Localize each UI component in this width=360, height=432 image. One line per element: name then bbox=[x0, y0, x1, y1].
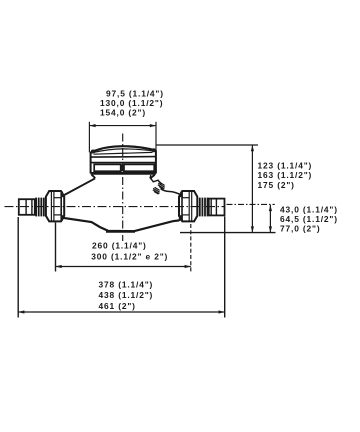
top width dimension labels 97,5 / 130,0 / 154,0 bbox=[100, 89, 164, 118]
svg-text:378 (1.1/4"): 378 (1.1/4") bbox=[99, 280, 154, 290]
body belly flat bottom bbox=[106, 230, 135, 233]
lower dimension line 260/300 bbox=[56, 266, 191, 268]
register counter window right bbox=[124, 164, 154, 171]
register lid chord line bbox=[94, 152, 153, 154]
right half-height labels 43,0/64,5/77,0 bbox=[280, 205, 338, 234]
lower dimension labels 260/300 bbox=[91, 241, 168, 262]
svg-text:77,0 (2"): 77,0 (2") bbox=[280, 224, 320, 234]
left pipe inner lines bbox=[25, 199, 27, 215]
tamper seal wire zigzag bbox=[150, 175, 161, 184]
right thread section bbox=[200, 198, 208, 217]
svg-text:64,5 (1.1/2"): 64,5 (1.1/2") bbox=[280, 214, 338, 224]
register band line bbox=[91, 162, 156, 164]
tamper seal lead blob lower bbox=[153, 187, 160, 194]
svg-text:175 (2"): 175 (2") bbox=[258, 180, 295, 190]
body right neck curve bbox=[151, 175, 155, 179]
vertical centerline of meter bbox=[122, 134, 124, 242]
register head dome lid outer arc bbox=[91, 146, 156, 152]
lower dimension extension line left bbox=[55, 223, 57, 272]
svg-text:130,0 (1.1/2"): 130,0 (1.1/2") bbox=[100, 98, 163, 108]
right half-height dimension line (43/64,5/77) bbox=[269, 205, 271, 233]
svg-text:260 (1.1/4"): 260 (1.1/4") bbox=[92, 241, 147, 251]
right height dimension line (123/163/175) bbox=[251, 145, 253, 233]
top dimension extension line left bbox=[88, 122, 90, 153]
right nut facet lines bbox=[188, 191, 190, 221]
overall length extension line right bbox=[224, 217, 226, 318]
register housing left side bbox=[90, 152, 92, 174]
register head dome lid inner seam arc bbox=[92, 149, 156, 153]
overall length labels 378/438/461 bbox=[99, 280, 154, 311]
tamper seal lead blob upper bbox=[158, 182, 165, 189]
register counter window left bbox=[94, 164, 121, 171]
overall length extension line left bbox=[17, 217, 19, 318]
svg-text:163 (1.1/2"): 163 (1.1/2") bbox=[258, 170, 313, 180]
right union nut bbox=[179, 191, 197, 221]
svg-text:43,0 (1.1/4"): 43,0 (1.1/4") bbox=[280, 205, 338, 215]
svg-text:123 (1.1/4"): 123 (1.1/4") bbox=[258, 160, 313, 170]
left union nut bbox=[46, 191, 64, 221]
register bottom edge bbox=[91, 172, 156, 175]
body left shoulder slope bbox=[64, 178, 95, 195]
overall length dimension line 378/438/461 bbox=[18, 311, 225, 313]
top dimension line with arrows bbox=[89, 125, 156, 127]
body left neck curve bbox=[92, 175, 96, 179]
left nut facet lines bbox=[50, 191, 52, 221]
left thread section bbox=[36, 198, 44, 217]
svg-text:438 (1.1/2"): 438 (1.1/2") bbox=[99, 290, 154, 300]
svg-text:154,0 (2"): 154,0 (2") bbox=[100, 108, 146, 118]
top dimension extension line right bbox=[155, 122, 157, 152]
centerline extension to half-height dimension bbox=[227, 203, 275, 205]
left pipe end bbox=[19, 199, 35, 215]
register lid hinge pins bbox=[91, 148, 156, 153]
svg-text:461 (2"): 461 (2") bbox=[99, 301, 136, 311]
register lid rim line bbox=[91, 156, 156, 159]
lower dimension extension line right dashed bbox=[190, 224, 192, 272]
right height labels 123/163/175 bbox=[258, 160, 313, 190]
register housing right side bbox=[155, 150, 157, 173]
right extension line from register top bbox=[156, 144, 259, 146]
right extension line at meter bottom bbox=[180, 232, 276, 234]
svg-text:97,5 (1.1/4"): 97,5 (1.1/4") bbox=[106, 89, 164, 99]
svg-text:300 (1.1/2" e 2"): 300 (1.1/2" e 2") bbox=[91, 251, 168, 261]
tamper seal wire tail / right shoulder bbox=[161, 189, 182, 196]
horizontal centerline (pipe axis) bbox=[5, 206, 225, 208]
right pipe inner lines bbox=[210, 199, 212, 216]
register window center divider bbox=[121, 164, 125, 171]
right pipe end bbox=[209, 199, 225, 216]
body bottom outline bbox=[64, 218, 180, 231]
